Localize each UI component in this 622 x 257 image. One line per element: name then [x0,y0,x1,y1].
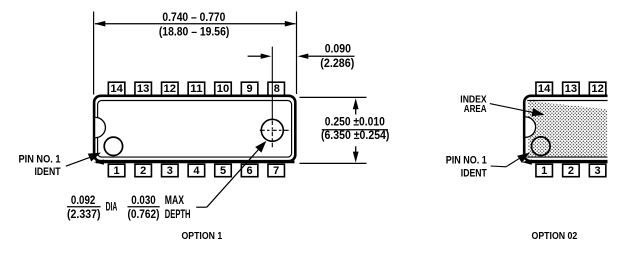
pin 12 (right package, top row) [589,82,606,95]
dimension text 0.740-0.770 [159,12,230,39]
svg-text:14: 14 [538,83,551,95]
dimension 0.740-0.770 package length (extension lines) [94,12,297,95]
dimension 0.250 body width (extension lines) [300,97,367,163]
svg-text:6: 6 [247,165,253,177]
package body outline (left package) [94,96,295,161]
svg-text:AREA: AREA [464,104,487,115]
pin 14 (left package, top row) [108,82,125,95]
svg-text:7: 7 [273,165,279,177]
dimension text 0.092 / (2.337) DIA [67,195,117,221]
index notch (right package) [525,117,535,137]
pin 14 (right package, top row) [536,82,553,95]
svg-text:DIA: DIA [106,201,118,213]
pin 9 (left package, top row) [241,82,258,95]
svg-text:0.090: 0.090 [325,44,351,56]
index notch (left package) [95,117,105,137]
dimension 0.090 (ejector mark to edge) arrows [248,54,321,59]
svg-text:9: 9 [247,83,253,95]
svg-text:(2.337): (2.337) [67,209,101,221]
svg-text:(6.350 ±0.254): (6.350 ±0.254) [321,130,390,142]
svg-text:12: 12 [164,83,177,95]
svg-text:PIN NO. 1: PIN NO. 1 [446,154,487,166]
svg-text:0.092: 0.092 [71,195,95,207]
svg-text:IDENT: IDENT [461,168,487,180]
pin 13 (right package, top row) [563,82,580,95]
leader arrow PIN NO. 1 IDENT (left package) [66,153,101,167]
svg-text:10: 10 [217,83,230,95]
svg-text:0.250 ±0.010: 0.250 ±0.010 [325,116,385,128]
leader arrow from MAX DEPTH to ejector mark [196,141,266,207]
svg-text:4: 4 [193,165,200,177]
dimension 0.740-0.770 dimension line with arrows [94,21,295,27]
pin 1 (left package, bottom row) [108,164,125,177]
pin 2 (right package, bottom row) [563,164,580,177]
svg-text:14: 14 [110,83,123,95]
svg-text:3: 3 [167,165,173,177]
svg-text:3: 3 [595,165,601,177]
pin 4 (left package, bottom row) [188,164,205,177]
dimension text 0.030 / (0.762) MAX DEPTH [128,195,191,221]
index area stipple shading (right package) [528,101,607,156]
label INDEX AREA [460,95,487,116]
label PIN NO. 1 IDENT (right package) [446,154,487,179]
pin 8 (left package, top row) [268,82,285,95]
svg-text:IDENT: IDENT [35,166,61,178]
pin 6 (left package, bottom row) [241,164,258,177]
package body outline (right package, truncated) [524,96,607,161]
pin 12 (left package, top row) [162,82,179,95]
svg-text:1: 1 [114,165,120,177]
dimension text 0.090 / (2.286) with fraction bar [320,44,355,70]
dimension 0.250 arrows [353,98,359,162]
pin 5 (left package, bottom row) [215,164,232,177]
pin no. 1 ident dimple (left package) [104,137,122,155]
bottom edge thick line (right package) [522,160,608,165]
svg-text:PIN NO. 1: PIN NO. 1 [19,153,61,165]
ejector pin mark circle with crosshair (left package) [260,119,289,147]
svg-text:12: 12 [591,83,604,95]
svg-text:1: 1 [541,165,547,177]
label PIN NO. 1 IDENT (left package) [19,153,61,178]
svg-text:5: 5 [220,165,226,177]
svg-text:8: 8 [274,83,280,95]
svg-text:OPTION 1: OPTION 1 [182,231,223,242]
pin 3 (left package, bottom row) [162,164,179,177]
center extension line through pin 8 to ejector mark [271,47,273,121]
bottom edge thick line (left package) [94,160,295,165]
svg-text:(18.80 – 19.56): (18.80 – 19.56) [159,27,230,39]
svg-text:11: 11 [190,83,203,95]
leader arrow INDEX AREA [490,104,545,117]
svg-text:2: 2 [140,165,146,177]
svg-text:MAX: MAX [165,195,184,207]
dimension text 0.250 +/-0.010 with fraction bar [321,116,390,142]
svg-text:13: 13 [565,83,578,95]
pin 13 (left package, top row) [135,82,152,95]
pin 1 (right package, bottom row) [536,164,553,177]
svg-text:2: 2 [568,165,574,177]
svg-text:(2.286): (2.286) [320,58,354,70]
svg-text:OPTION 02: OPTION 02 [532,231,578,242]
svg-text:(0.762): (0.762) [128,209,160,221]
svg-text:DEPTH: DEPTH [165,209,191,221]
leader arrow PIN NO. 1 IDENT (right package) [491,153,530,167]
pin 2 (left package, bottom row) [135,164,152,177]
pin 11 (left package, top row) [188,82,205,95]
pin 3 (right package, bottom row) [589,164,606,177]
svg-text:0.740 – 0.770: 0.740 – 0.770 [162,12,225,24]
svg-text:13: 13 [137,83,150,95]
pin 7 (left package, bottom row) [268,164,285,177]
svg-text:0.030: 0.030 [131,195,155,207]
pin 10 (left package, top row) [215,82,232,95]
pin no. 1 ident dimple (right package) [532,137,551,156]
